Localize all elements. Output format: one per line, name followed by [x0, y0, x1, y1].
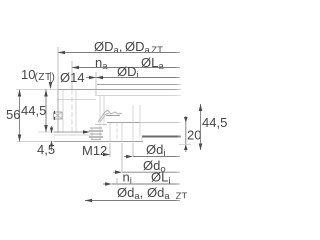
body left edge: [57, 90, 59, 134]
svg-text:Øda,: Øda,: [117, 185, 143, 202]
grease nipple: [54, 111, 63, 120]
body top face outer ring: [58, 89, 181, 91]
fade of line ends bottom right: [175, 154, 193, 159]
dimension line ØLa / na: [72, 66, 180, 70]
body line seal top: [97, 95, 181, 97]
leader 10ZT: [49, 72, 53, 89]
dimension 56: [6, 90, 21, 142]
svg-text:ØDa,: ØDa,: [94, 39, 122, 56]
label na: [95, 55, 108, 72]
svg-text:na: na: [95, 55, 108, 72]
extension 44,5 bottom: [38, 131, 54, 133]
svg-text:ØDaZT: ØDaZT: [125, 39, 163, 56]
extension Ødi: [132, 143, 134, 157]
label ØLi: [151, 170, 170, 187]
label ØDa, ØDa ZT: [94, 39, 163, 56]
leader arrow Ø14: [86, 76, 96, 80]
dimension line ØDa: [58, 51, 180, 55]
extension line ØDa at x58: [57, 47, 59, 89]
counterbore line: [110, 122, 181, 124]
dimension line Ødi: [124, 155, 180, 159]
label ni: [123, 170, 132, 187]
svg-text:44,5: 44,5: [202, 115, 227, 130]
label ØLa: [141, 55, 164, 72]
label Ødi: [146, 142, 165, 159]
svg-text:4,5: 4,5: [37, 142, 55, 157]
dimension 44,5 right: [199, 104, 228, 150]
dimension line ØDi: [96, 76, 180, 80]
fade of line ends top right: [175, 40, 193, 102]
extension Ødo: [121, 143, 123, 173]
body vertical x72: [71, 90, 73, 134]
label Ø14: [60, 70, 85, 85]
recess band: [54, 134, 90, 136]
dimension line Øda: [85, 199, 180, 203]
body vertical x63: [62, 90, 64, 134]
step vertical x142: [141, 137, 143, 142]
svg-text:56: 56: [6, 107, 20, 122]
label M12: [82, 143, 107, 158]
svg-text:Ø14: Ø14: [60, 70, 85, 85]
ball raceway line: [107, 122, 140, 124]
dimension 44,5 left: [21, 90, 48, 133]
gear band bottom: [58, 99, 96, 101]
svg-text:44,5: 44,5: [21, 103, 46, 118]
bolt M12 detail: [89, 128, 103, 140]
bottom raised face right: [142, 136, 181, 138]
extension M12: [109, 143, 111, 157]
extension ni: [116, 178, 118, 184]
bolt hole edge x104: [103, 96, 105, 126]
svg-text:ØLa: ØLa: [141, 55, 164, 72]
leader M12: [102, 153, 110, 157]
label ØDi: [117, 64, 139, 81]
inner ring verticals: [109, 123, 111, 142]
outer ring bottom: [54, 130, 90, 134]
svg-text:10: 10: [21, 67, 35, 82]
label Ødo: [143, 158, 166, 175]
dimension 20 right: [179, 116, 201, 152]
body top line inner assembly: [97, 84, 181, 86]
fade of line ends mid right: [177, 116, 191, 146]
label 10(ZT): [21, 67, 55, 83]
svg-text:(ZT): (ZT): [35, 72, 56, 83]
bolt hole edge x100: [99, 96, 101, 128]
body vertical x76: [75, 90, 77, 134]
extension line na at x72: [71, 61, 73, 89]
label Øda, Øda ZT: [117, 185, 187, 202]
dimension line ØLi: [103, 182, 180, 186]
svg-text:ØDi: ØDi: [117, 64, 139, 81]
svg-text:20: 20: [187, 128, 201, 143]
extension line ØDi at x96: [95, 72, 97, 96]
dimension 4,5: [37, 126, 55, 157]
seal profile: [95, 110, 122, 125]
dimension line Ødo: [113, 170, 180, 174]
bottom face: [17, 141, 54, 143]
extension top face left: [16, 89, 58, 91]
